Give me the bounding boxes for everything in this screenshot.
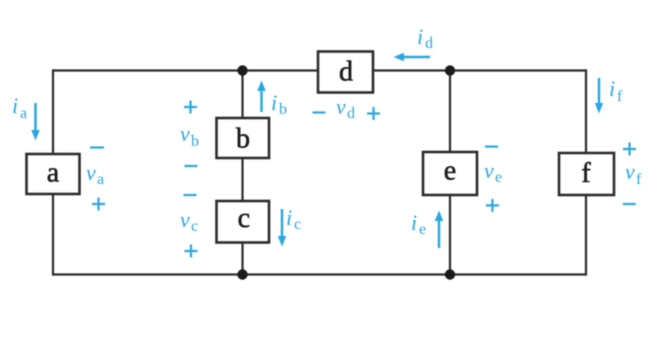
element c box — [217, 201, 270, 243]
label vb with polarity — [180, 101, 199, 167]
svg-text:i: i — [286, 205, 292, 230]
wire middle branch b-c — [241, 71, 243, 275]
svg-text:f: f — [581, 158, 591, 189]
svg-text:f: f — [636, 171, 642, 188]
svg-text:i: i — [12, 93, 18, 118]
svg-text:v: v — [336, 94, 346, 119]
label ia — [12, 93, 27, 122]
wire left — [52, 69, 54, 275]
current arrow if — [595, 78, 603, 114]
node bottom-left junction — [237, 269, 247, 279]
label va with polarity — [86, 148, 105, 211]
svg-text:c: c — [191, 218, 198, 235]
svg-text:e: e — [444, 156, 456, 187]
svg-text:b: b — [279, 101, 287, 118]
label vc with polarity — [180, 195, 198, 258]
current arrow ic — [278, 209, 287, 247]
current arrow ie — [435, 211, 444, 249]
svg-text:f: f — [617, 88, 623, 105]
label ib — [271, 90, 287, 118]
svg-text:i: i — [609, 76, 615, 101]
svg-text:v: v — [180, 121, 190, 146]
svg-text:e: e — [419, 221, 426, 238]
element f box — [559, 153, 614, 195]
svg-text:a: a — [47, 157, 60, 188]
label ic — [286, 205, 301, 233]
wire top — [53, 69, 586, 71]
current arrow id — [394, 53, 431, 62]
wire bottom — [53, 273, 586, 275]
svg-text:c: c — [294, 216, 301, 233]
svg-text:i: i — [271, 90, 277, 115]
svg-text:d: d — [339, 57, 353, 88]
svg-text:v: v — [625, 159, 635, 184]
svg-text:d: d — [347, 105, 355, 122]
element d box — [318, 52, 373, 93]
node top-left junction — [237, 65, 247, 75]
svg-text:b: b — [236, 124, 250, 155]
svg-text:b: b — [191, 133, 199, 150]
wire branch e — [449, 71, 451, 275]
svg-text:v: v — [484, 158, 494, 183]
label vf with polarity — [623, 143, 642, 205]
element b box — [217, 118, 270, 158]
node bottom-right junction — [445, 269, 455, 279]
wire right — [585, 69, 587, 275]
element e box — [423, 152, 477, 195]
svg-text:v: v — [180, 207, 190, 232]
current arrow ia — [31, 103, 40, 141]
svg-text:d: d — [425, 35, 433, 52]
label ie — [411, 210, 426, 238]
svg-text:c: c — [238, 203, 250, 234]
svg-text:e: e — [495, 169, 502, 186]
label id — [417, 24, 433, 52]
label ve with polarity — [484, 147, 502, 212]
svg-text:a: a — [97, 171, 104, 188]
svg-text:i: i — [411, 210, 417, 235]
label vd with polarity — [313, 94, 381, 122]
svg-text:a: a — [20, 105, 27, 122]
current arrow ib — [257, 81, 266, 113]
svg-text:v: v — [86, 160, 96, 185]
svg-text:i: i — [417, 24, 423, 49]
node top-right junction — [445, 65, 455, 75]
element a box — [27, 154, 80, 194]
label if — [609, 76, 623, 105]
